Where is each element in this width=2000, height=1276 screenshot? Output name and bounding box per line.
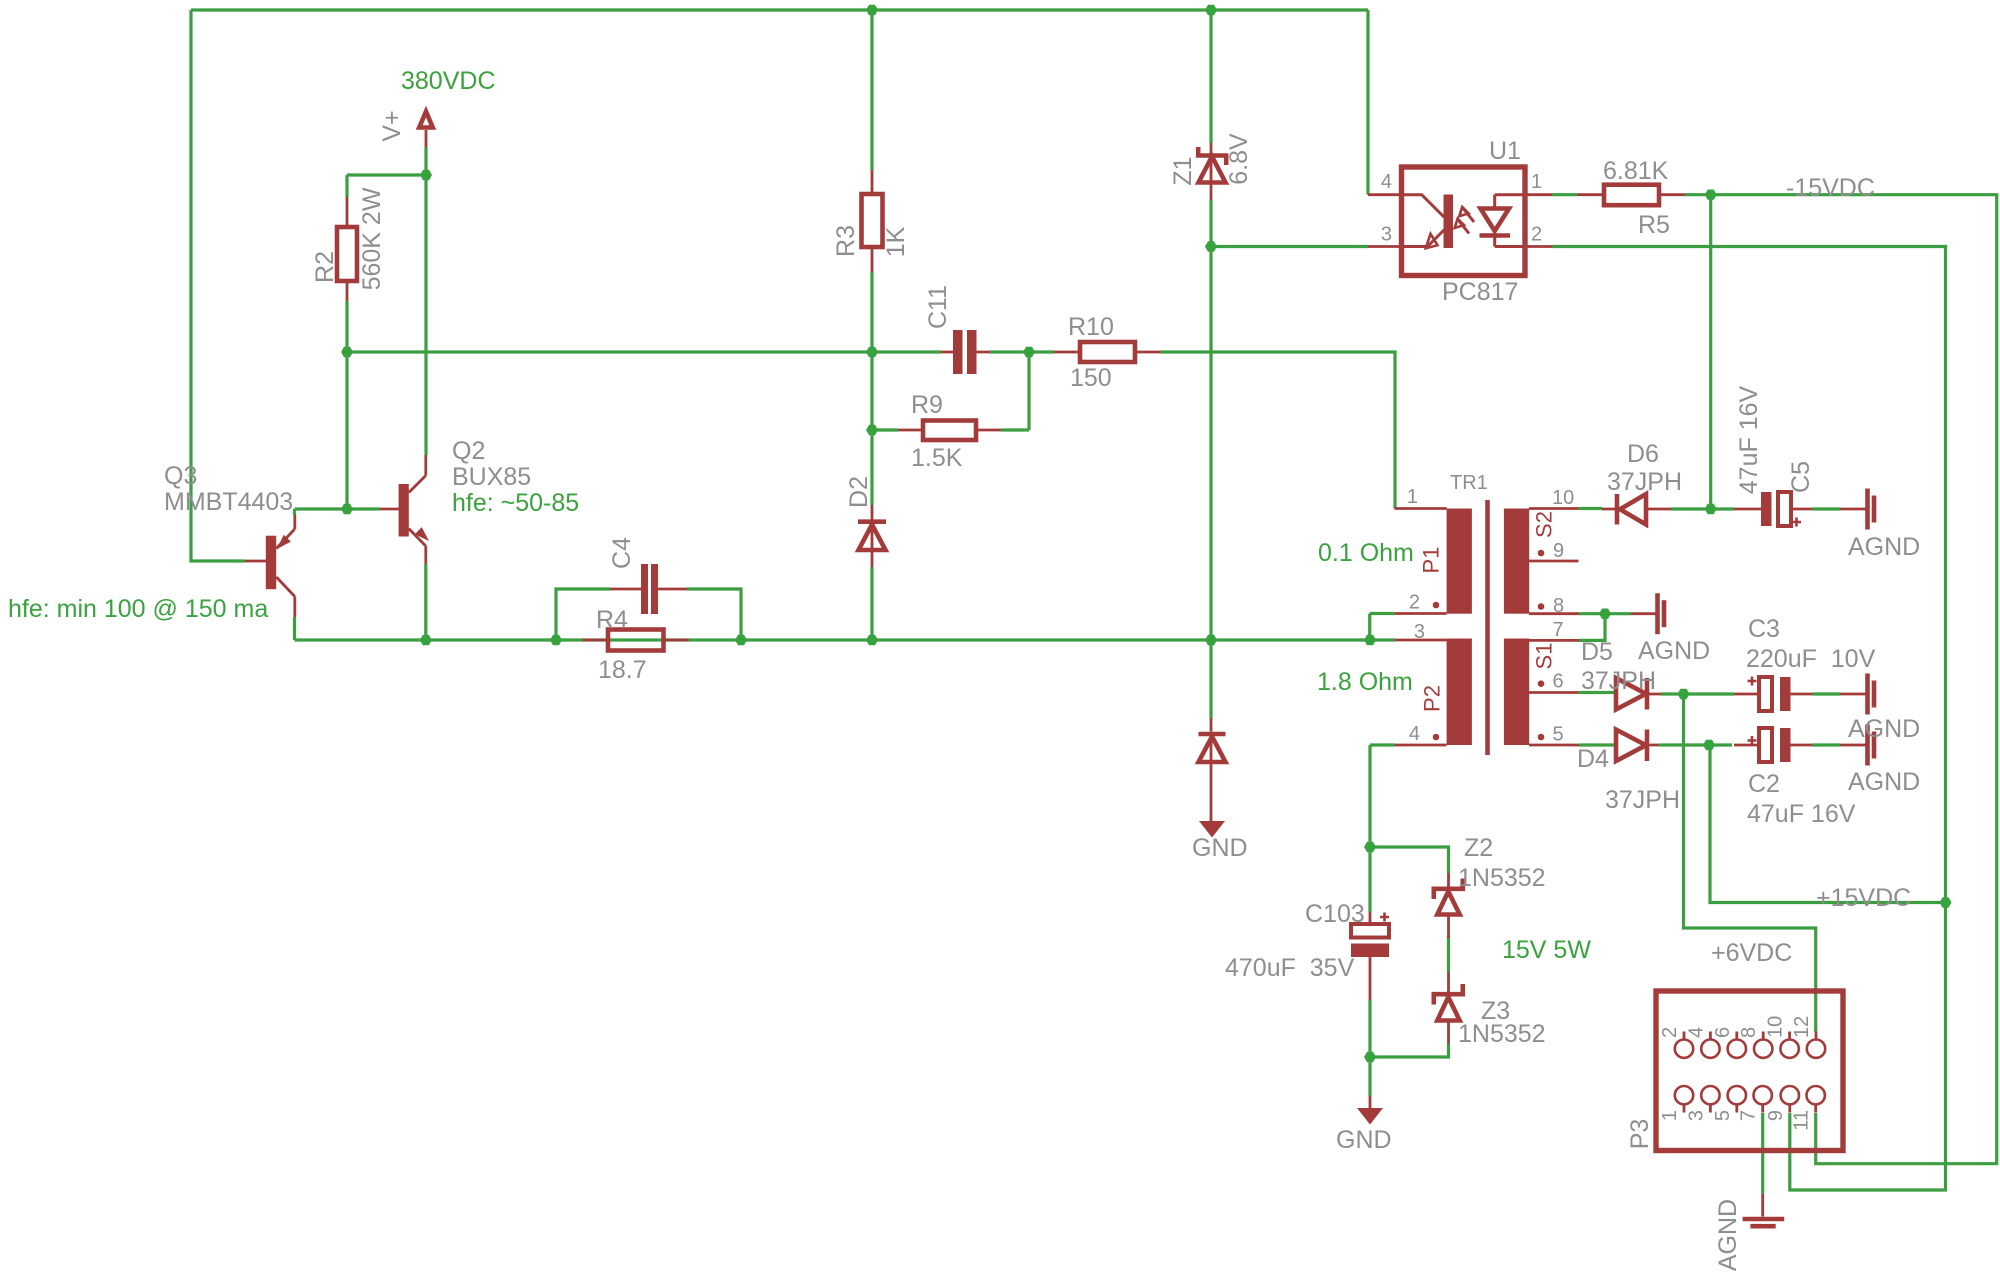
svg-text:37JPH: 37JPH <box>1581 667 1656 695</box>
svg-text:MMBT4403: MMBT4403 <box>164 488 293 516</box>
svg-text:P1: P1 <box>1419 547 1444 574</box>
svg-text:560K 2W: 560K 2W <box>358 187 386 290</box>
svg-text:-15VDC: -15VDC <box>1786 174 1875 202</box>
svg-text:D2: D2 <box>845 476 873 508</box>
svg-text:1.8 Ohm: 1.8 Ohm <box>1317 668 1413 696</box>
svg-text:1: 1 <box>1407 486 1418 508</box>
svg-text:10: 10 <box>1765 1016 1787 1038</box>
svg-text:AGND: AGND <box>1848 533 1920 561</box>
svg-text:470uF 35V: 470uF 35V <box>1225 954 1355 982</box>
svg-text:15V 5W: 15V 5W <box>1502 936 1591 964</box>
svg-text:10: 10 <box>1552 487 1574 509</box>
svg-text:3: 3 <box>1414 621 1425 643</box>
svg-text:1N5352: 1N5352 <box>1458 864 1546 892</box>
svg-text:380VDC: 380VDC <box>401 67 496 95</box>
svg-text:4: 4 <box>1381 171 1392 193</box>
svg-text:9: 9 <box>1553 540 1564 562</box>
svg-text:BUX85: BUX85 <box>452 463 531 491</box>
svg-text:R10: R10 <box>1068 313 1114 341</box>
svg-text:GND: GND <box>1192 834 1248 862</box>
svg-text:5: 5 <box>1712 1110 1734 1121</box>
svg-text:AGND: AGND <box>1848 768 1920 796</box>
svg-text:R9: R9 <box>911 391 943 419</box>
svg-text:S2: S2 <box>1532 511 1557 538</box>
svg-text:6: 6 <box>1712 1027 1734 1038</box>
svg-text:4: 4 <box>1409 723 1420 745</box>
svg-text:4: 4 <box>1685 1027 1707 1038</box>
svg-text:R3: R3 <box>832 225 860 257</box>
svg-text:6.8V: 6.8V <box>1225 133 1253 185</box>
svg-text:C2: C2 <box>1748 770 1780 798</box>
svg-text:47uF 16V: 47uF 16V <box>1735 385 1763 494</box>
svg-text:PC817: PC817 <box>1442 278 1518 306</box>
svg-text:Z1: Z1 <box>1169 156 1197 185</box>
svg-text:D6: D6 <box>1627 440 1659 468</box>
svg-text:6.81K: 6.81K <box>1603 157 1669 185</box>
svg-text:1: 1 <box>1531 171 1542 193</box>
svg-text:220uF 10V: 220uF 10V <box>1746 645 1876 673</box>
svg-text:hfe: ~50-85: hfe: ~50-85 <box>452 489 579 517</box>
svg-text:C4: C4 <box>608 537 636 569</box>
svg-text:C5: C5 <box>1787 461 1815 493</box>
svg-text:Q3: Q3 <box>164 462 197 490</box>
svg-text:Z2: Z2 <box>1464 834 1493 862</box>
svg-text:C3: C3 <box>1748 615 1780 643</box>
svg-text:2: 2 <box>1531 224 1542 246</box>
svg-text:1: 1 <box>1659 1110 1681 1121</box>
svg-text:1K: 1K <box>882 226 910 257</box>
svg-text:U1: U1 <box>1489 137 1521 165</box>
svg-text:37JPH: 37JPH <box>1607 468 1682 496</box>
svg-text:150: 150 <box>1070 364 1112 392</box>
svg-text:2: 2 <box>1409 592 1420 614</box>
svg-text:TR1: TR1 <box>1450 472 1488 494</box>
svg-text:9: 9 <box>1765 1110 1787 1121</box>
svg-text:R5: R5 <box>1638 211 1670 239</box>
svg-text:AGND: AGND <box>1638 637 1710 665</box>
svg-text:Q2: Q2 <box>452 437 485 465</box>
svg-text:P3: P3 <box>1626 1119 1654 1150</box>
svg-text:D4: D4 <box>1577 745 1609 773</box>
svg-text:1N5352: 1N5352 <box>1458 1020 1546 1048</box>
svg-text:GND: GND <box>1336 1126 1392 1154</box>
svg-text:V+: V+ <box>378 110 406 141</box>
svg-text:+15VDC: +15VDC <box>1816 884 1911 912</box>
svg-text:+6VDC: +6VDC <box>1711 939 1792 967</box>
svg-text:AGND: AGND <box>1714 1199 1742 1271</box>
svg-text:3: 3 <box>1685 1110 1707 1121</box>
svg-text:hfe: min 100 @ 150 ma: hfe: min 100 @ 150 ma <box>8 595 268 623</box>
svg-text:12: 12 <box>1791 1016 1813 1038</box>
svg-text:S1: S1 <box>1532 643 1557 670</box>
svg-text:8: 8 <box>1553 595 1564 617</box>
svg-text:8: 8 <box>1738 1027 1760 1038</box>
svg-text:7: 7 <box>1738 1110 1760 1121</box>
svg-text:2: 2 <box>1659 1027 1681 1038</box>
svg-text:11: 11 <box>1791 1110 1813 1131</box>
svg-text:C11: C11 <box>924 285 952 329</box>
svg-text:18.7: 18.7 <box>598 656 647 684</box>
svg-text:D5: D5 <box>1581 638 1613 666</box>
svg-text:R2: R2 <box>311 251 339 283</box>
svg-text:AGND: AGND <box>1848 715 1920 743</box>
svg-text:6: 6 <box>1553 671 1564 693</box>
svg-text:0.1 Ohm: 0.1 Ohm <box>1318 539 1414 567</box>
svg-text:5: 5 <box>1553 724 1564 746</box>
svg-text:C103: C103 <box>1305 900 1365 928</box>
svg-text:P2: P2 <box>1420 685 1445 712</box>
svg-text:7: 7 <box>1553 619 1564 641</box>
svg-text:37JPH: 37JPH <box>1605 786 1680 814</box>
svg-text:1.5K: 1.5K <box>911 444 963 472</box>
svg-text:47uF 16V: 47uF 16V <box>1747 800 1856 828</box>
svg-text:3: 3 <box>1381 224 1392 246</box>
svg-text:R4: R4 <box>596 606 628 634</box>
